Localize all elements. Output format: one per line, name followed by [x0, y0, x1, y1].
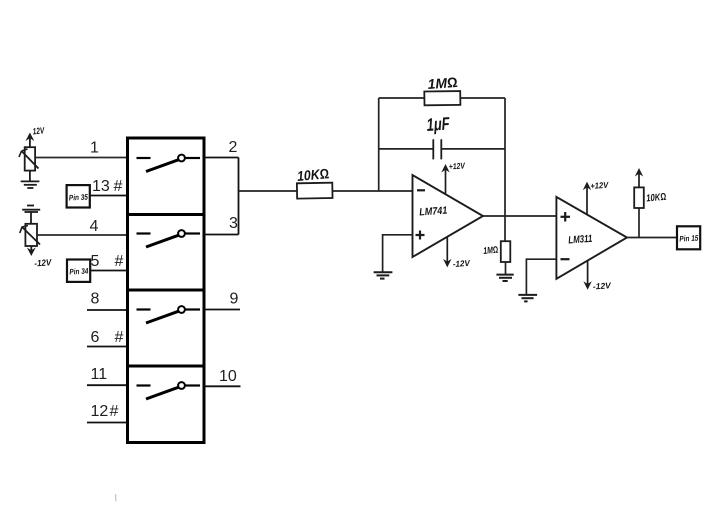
ground below P1: [21, 171, 40, 188]
svg-text:#: #: [114, 178, 123, 195]
supply arrow +12V at P1: [26, 133, 35, 148]
svg-text:1μF: 1μF: [426, 113, 451, 135]
svg-text:2: 2: [229, 139, 238, 156]
wire U1 plus input to ground: [383, 235, 413, 272]
wire pin 11 stub: [87, 384, 128, 386]
switch section separator 1: [128, 213, 205, 216]
svg-text:-12V: -12V: [452, 258, 471, 269]
wire R1 to U1 inverting input: [332, 190, 412, 192]
svg-text:#: #: [115, 253, 124, 270]
svg-text:11: 11: [91, 366, 108, 383]
wire U1 output to U3 plus input: [483, 215, 556, 217]
connector box Pin 35: [67, 185, 90, 207]
comparator U3 LM311: [556, 197, 627, 279]
svg-text:LM741: LM741: [419, 205, 448, 219]
svg-text:10KΩ: 10KΩ: [646, 192, 667, 205]
switch S3: [137, 306, 201, 323]
resistor Rf 1M: [424, 91, 460, 105]
ground below R2: [496, 275, 513, 281]
svg-text:#: #: [115, 329, 124, 346]
connector box Pin 15: [677, 226, 700, 249]
supply arrow -12V at P2: [27, 246, 36, 256]
svg-text:6: 6: [91, 329, 100, 346]
potentiometer P2 (-12V trimmer): [20, 224, 40, 246]
svg-text:13: 13: [92, 178, 110, 195]
wire pin 2 out: [204, 157, 239, 159]
svg-text:12: 12: [91, 403, 109, 420]
switch section separator 2: [128, 289, 205, 292]
wire pin 6# stub: [87, 346, 128, 348]
U3 plus sign: [561, 212, 571, 222]
switch S2: [137, 230, 201, 247]
resistor R1 10k: [297, 183, 333, 199]
svg-text:Pin 34: Pin 34: [69, 267, 89, 277]
wire Pin35 to pin 13#: [90, 195, 128, 197]
switch section separator 3: [128, 365, 205, 368]
wire U3 output to Pin15: [627, 237, 677, 239]
U3 +12V supply arrow: [583, 182, 591, 214]
wire feedback top left: [379, 97, 425, 99]
resistor R3 10k pull-up: [634, 187, 644, 208]
wire pin 12# stub: [87, 422, 128, 424]
wire junction to resistor R1: [239, 190, 298, 192]
svg-text:5: 5: [91, 253, 100, 270]
wire U3 minus input to ground: [526, 259, 556, 294]
svg-text:Pin 35: Pin 35: [69, 192, 89, 202]
wire pin 3 out: [204, 234, 239, 236]
svg-text:10: 10: [219, 368, 237, 385]
wire feedback top right: [460, 97, 505, 99]
svg-text:#: #: [110, 403, 119, 420]
svg-text:10KΩ: 10KΩ: [296, 165, 329, 184]
op-amp U1 LM741: [413, 175, 484, 257]
wire pin 9 out: [204, 309, 240, 311]
resistor R2 1M to ground: [501, 241, 511, 262]
ground at U1 plus input: [374, 272, 393, 278]
svg-text:-12V: -12V: [34, 257, 53, 268]
U1 plus sign: [416, 231, 425, 240]
supply arrow above R3: [635, 168, 643, 187]
svg-text:-12V: -12V: [592, 280, 612, 291]
svg-text:1MΩ: 1MΩ: [427, 74, 458, 92]
svg-text:4: 4: [90, 218, 99, 235]
wire pin 8 stub: [87, 309, 128, 311]
potentiometer P1 (+12V trimmer): [19, 147, 39, 170]
switch S4: [137, 382, 201, 399]
U1 minus sign: [417, 189, 425, 191]
svg-text:12V: 12V: [32, 125, 45, 136]
svg-text:+12V: +12V: [590, 180, 610, 191]
wire feedback left vertical: [378, 98, 380, 191]
U1 -12V supply arrow: [443, 237, 451, 267]
svg-text:Pin 15: Pin 15: [679, 234, 699, 244]
switch S1: [137, 155, 201, 172]
wire P2 wiper to pin 4: [37, 234, 128, 236]
svg-text:3: 3: [229, 215, 238, 232]
svg-text:9: 9: [230, 291, 239, 308]
U1 +12V supply arrow: [441, 164, 449, 194]
wire pin 10 out: [204, 385, 241, 387]
wire R2 to ground: [505, 262, 507, 274]
svg-text:8: 8: [91, 291, 100, 308]
ground above P2 (inverted): [22, 206, 40, 224]
wire junction vertical joining 2 and 3: [238, 158, 240, 235]
wire P1 wiper to pin 1: [35, 157, 127, 159]
U3 minus sign: [561, 258, 570, 260]
wire Pin34 to pin 5#: [90, 270, 127, 272]
quad switch box U2 outline: [128, 138, 205, 443]
svg-text:LM311: LM311: [568, 233, 593, 247]
wire cap right: [441, 148, 505, 150]
wire pull-up vertical: [638, 208, 640, 238]
svg-text:1: 1: [90, 140, 99, 157]
wire cap left: [379, 148, 434, 150]
U3 -12V supply arrow: [583, 261, 591, 290]
ground at U3 minus input: [518, 295, 537, 302]
capacitor Cf 1uF: [433, 139, 441, 159]
stray tick mark: [115, 494, 117, 501]
svg-text:+12V: +12V: [448, 160, 466, 171]
connector box Pin 34: [67, 260, 90, 282]
wire feedback right vertical: [504, 98, 506, 241]
svg-text:1MΩ: 1MΩ: [483, 245, 499, 257]
